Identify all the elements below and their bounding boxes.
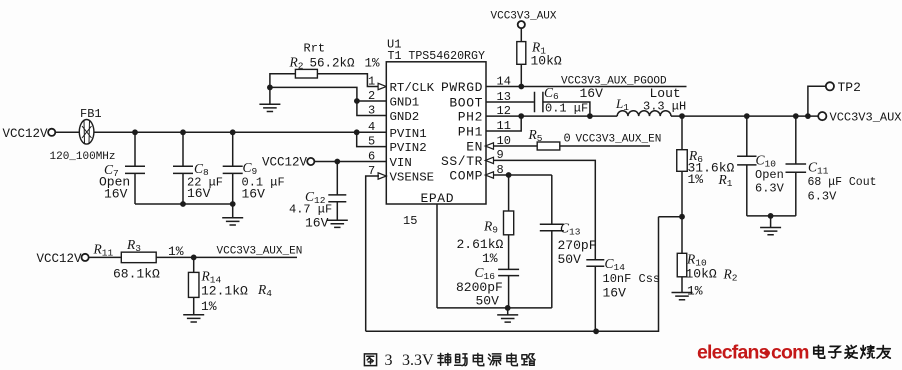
caption char 2: [473, 353, 483, 365]
wire C11 top lead: [795, 116, 797, 164]
terminal TP2: [826, 82, 834, 90]
node R2 gnd branch: [267, 85, 273, 91]
wire comp ground bus: [437, 307, 552, 309]
wire C9 bottom lead: [232, 173, 234, 204]
node rail C7 tap: [132, 129, 138, 135]
node PWRGD R1: [518, 84, 524, 90]
svg-text:VCC3V3_AUX_EN: VCC3V3_AUX_EN: [217, 246, 303, 258]
wire PH1 riser: [486, 116, 521, 131]
pin 7 input arrow: [378, 173, 386, 179]
wire R6 bottom lead: [681, 171, 683, 216]
wire EPAD lead: [436, 204, 438, 308]
wire L1 to output node: [671, 115, 819, 117]
svg-text:10kΩ: 10kΩ: [531, 54, 562, 69]
ground output caps: [760, 228, 781, 235]
node GND1 junction: [354, 98, 360, 104]
svg-text:TP2: TP2: [838, 80, 861, 95]
wire VCC12V to FB1: [55, 131, 79, 133]
wire C10 bottom lead: [746, 165, 748, 216]
wire VSENSE: [366, 176, 379, 331]
wire SSTR: [494, 160, 595, 259]
node divider mid: [679, 214, 685, 220]
wire R14 bottom lead: [193, 297, 195, 314]
svg-text:1%: 1%: [168, 244, 184, 259]
caption char 4: [507, 353, 517, 365]
wire R2 right to pin1: [317, 74, 379, 87]
wire COMP: [494, 174, 552, 176]
wire R1 bottom lead: [520, 64, 522, 86]
capacitor C13: [540, 224, 564, 231]
resistor R10: [677, 253, 687, 276]
svg-text:VCC12V: VCC12V: [37, 252, 83, 266]
caption char 5: [522, 354, 535, 365]
svg-text:VCC12V: VCC12V: [3, 127, 49, 141]
logo char 1: [829, 346, 841, 357]
svg-text:0.1 μF: 0.1 μF: [545, 102, 588, 116]
wire GND1 stub: [357, 100, 386, 102]
svg-text:Open: Open: [755, 168, 784, 182]
svg-text:50V: 50V: [558, 252, 582, 267]
ferrite bead FB1: [79, 120, 94, 145]
svg-text:56.2kΩ: 56.2kΩ: [310, 57, 356, 71]
wire C7 bottom lead: [134, 173, 136, 204]
svg-text:VCC12V: VCC12V: [262, 156, 308, 170]
svg-text:GND1: GND1: [390, 96, 420, 110]
logo char 0: [814, 345, 825, 358]
wire TP2 riser: [808, 86, 826, 116]
ground cap bank: [222, 218, 243, 225]
terminal VCC3V3_AUX top: [518, 21, 525, 28]
svg-text:3: 3: [385, 352, 393, 369]
svg-text:BOOT: BOOT: [449, 96, 483, 111]
svg-text:3: 3: [368, 103, 375, 117]
capacitor C12: [328, 195, 346, 202]
wire R2 left to ground: [270, 74, 296, 105]
wire feedback to divider: [659, 216, 683, 218]
svg-text:1%: 1%: [687, 284, 703, 299]
svg-text:VIN: VIN: [390, 156, 412, 170]
resistor R5: [537, 142, 560, 150]
node C14 bottom: [593, 328, 599, 334]
wire gnd stem outcaps: [770, 216, 772, 228]
svg-text:15: 15: [403, 214, 417, 228]
svg-text:16V: 16V: [104, 187, 128, 202]
capacitor C7: [125, 166, 145, 173]
wire cap bank ground bus: [135, 203, 233, 205]
svg-text:6.3V: 6.3V: [808, 190, 838, 204]
resistor R2: [295, 69, 317, 78]
svg-text:COMP: COMP: [449, 169, 483, 184]
svg-text:EN: EN: [466, 140, 483, 155]
svg-text:C11: C11: [808, 160, 829, 177]
logo char 4: [877, 345, 890, 358]
wire C8 top lead: [182, 132, 184, 166]
node bus C8: [180, 201, 186, 207]
svg-text:16V: 16V: [187, 186, 211, 201]
svg-text:10kΩ: 10kΩ: [686, 267, 717, 282]
wire EN right: [560, 145, 650, 147]
svg-text:1%: 1%: [688, 172, 704, 187]
wire bus to ground: [232, 204, 234, 218]
terminal VCC3V3_AUX out: [818, 112, 826, 120]
pin 10 input arrow: [485, 143, 493, 149]
svg-text:L1: L1: [615, 96, 629, 113]
node comp gnd: [505, 305, 511, 311]
op-amp U1 TPS54620RGY box: [386, 62, 486, 204]
inductor L1 Lout: [617, 111, 671, 116]
svg-text:2.61kΩ: 2.61kΩ: [457, 237, 504, 252]
wire C10 top lead: [746, 116, 748, 156]
wire R9 to C16: [508, 235, 510, 270]
pin 1 input arrow: [378, 83, 386, 89]
wire R3 right: [156, 256, 297, 258]
svg-text:C6: C6: [544, 85, 559, 102]
wire R10 top lead: [681, 217, 683, 254]
ground C12: [327, 220, 348, 227]
svg-text:1%: 1%: [365, 57, 381, 71]
svg-text:elecfans: elecfans: [697, 342, 770, 364]
wire C6 to PH: [543, 102, 590, 116]
svg-text:VCC3V3_AUX: VCC3V3_AUX: [491, 11, 557, 23]
wire gnd branch to GND pins: [270, 87, 386, 115]
svg-text:5: 5: [368, 134, 375, 148]
capacitor C9: [223, 166, 243, 173]
wire C14 bottom lead: [594, 266, 596, 331]
svg-text:0: 0: [564, 132, 571, 146]
node C12 tap: [334, 159, 340, 165]
svg-text:50V: 50V: [476, 294, 500, 309]
ground R2: [259, 104, 280, 111]
wire VIN: [315, 161, 387, 163]
wire C11 bottom lead: [795, 172, 797, 216]
caption char 0: [438, 353, 451, 365]
caption char 3: [488, 354, 501, 366]
svg-text:16V: 16V: [305, 216, 329, 231]
node rail C9 tap: [230, 129, 236, 135]
svg-text:R3: R3: [126, 237, 141, 254]
svg-text:1: 1: [368, 74, 375, 88]
node out R6: [679, 113, 685, 119]
node PH join: [518, 113, 524, 119]
ground R10: [672, 293, 693, 300]
svg-text:FB1: FB1: [80, 107, 102, 121]
svg-text:68 μF Cout: 68 μF Cout: [808, 176, 877, 189]
resistor R3: [121, 252, 156, 263]
svg-text:68.1kΩ: 68.1kΩ: [113, 267, 160, 282]
logo char 2: [845, 345, 857, 358]
wire C12 bottom lead: [336, 202, 338, 220]
capacitor C10: [737, 156, 756, 165]
svg-text:PH1: PH1: [458, 125, 483, 140]
wire C16 bottom lead: [508, 276, 510, 308]
node EN divider: [191, 255, 197, 261]
svg-text:R5: R5: [528, 127, 543, 144]
node bus C9: [230, 201, 236, 207]
ground compensation: [497, 315, 518, 322]
svg-text:16V: 16V: [580, 86, 604, 101]
svg-text:EPAD: EPAD: [421, 191, 455, 206]
capacitor C16: [498, 269, 519, 275]
svg-text:R9: R9: [483, 219, 498, 236]
caption char tu: [364, 354, 376, 366]
wire C13 top lead: [551, 175, 553, 224]
svg-text:3.3 μH: 3.3 μH: [643, 100, 686, 114]
logo char 3: [861, 345, 875, 358]
node rail C8 tap: [180, 129, 186, 135]
terminal VCC12V EN: [82, 254, 89, 261]
svg-text:16V: 16V: [242, 187, 266, 202]
svg-text:T1 TPS54620RGY: T1 TPS54620RGY: [388, 50, 485, 63]
capacitor C8: [173, 166, 193, 173]
svg-text:C10: C10: [756, 153, 777, 170]
svg-text:C13: C13: [560, 221, 581, 238]
svg-text:R2: R2: [723, 267, 738, 284]
node rail PVIN riser: [354, 129, 360, 135]
resistor R9: [504, 211, 514, 235]
svg-text:Rrt: Rrt: [304, 42, 326, 56]
svg-text:4: 4: [368, 120, 375, 134]
svg-text:com: com: [771, 342, 809, 364]
wire R3 left lead: [89, 256, 122, 258]
svg-text:C9: C9: [243, 160, 258, 177]
svg-text:2: 2: [368, 89, 375, 103]
svg-text:R4: R4: [257, 282, 272, 299]
pin 8 input arrow: [485, 172, 493, 178]
wire R10 bottom lead: [681, 277, 683, 293]
capacitor C6: [535, 92, 543, 112]
svg-text:VCC3V3_AUX: VCC3V3_AUX: [830, 111, 902, 125]
svg-text:VSENSE: VSENSE: [390, 171, 435, 185]
svg-text:PH2: PH2: [458, 110, 483, 125]
caption char 1: [455, 354, 467, 366]
svg-text:RT/CLK: RT/CLK: [390, 81, 435, 95]
wire C7 top lead: [134, 132, 136, 166]
node C6 right: [587, 113, 593, 119]
svg-text:6: 6: [368, 149, 375, 163]
node out cap gnd: [768, 213, 774, 219]
wire PH2: [486, 115, 617, 117]
svg-text:4.7 μF: 4.7 μF: [289, 203, 332, 217]
svg-text:1%: 1%: [201, 299, 217, 314]
terminal VCC12V VIN: [307, 158, 314, 165]
wire gnd stem comp: [507, 308, 509, 315]
svg-text:GND2: GND2: [390, 110, 420, 124]
pin 9 input arrow: [485, 157, 493, 163]
svg-text:12.1kΩ: 12.1kΩ: [201, 284, 248, 299]
resistor R6: [677, 150, 688, 172]
node COMP: [506, 172, 512, 178]
wire C13 bottom lead: [551, 231, 553, 308]
capacitor C14: [586, 260, 604, 267]
wire C9 top lead: [232, 132, 234, 166]
ground R14: [183, 315, 204, 322]
svg-text:R11: R11: [93, 242, 114, 259]
wire BOOT: [486, 101, 534, 103]
wire C12 top lead: [336, 162, 338, 195]
wire EN left: [494, 145, 537, 147]
resistor R1: [517, 42, 526, 65]
svg-text:C14: C14: [605, 256, 626, 273]
logo dot: [764, 350, 770, 356]
wire R9 top lead: [508, 175, 510, 211]
svg-text:6.3V: 6.3V: [755, 182, 785, 196]
svg-text:VCC3V3_AUX_EN: VCC3V3_AUX_EN: [576, 134, 662, 146]
svg-text:1%: 1%: [482, 251, 498, 266]
wire R14 top lead: [193, 257, 195, 272]
svg-text:16V: 16V: [603, 286, 627, 301]
wire R6 top lead: [681, 116, 683, 150]
svg-text:SS/TR: SS/TR: [441, 154, 483, 169]
wire PWRGD: [486, 86, 687, 88]
wire feedback bottom rail: [366, 217, 659, 332]
terminal VCC12V input: [48, 129, 55, 136]
svg-text:PVIN2: PVIN2: [390, 141, 427, 155]
svg-text:PWRGD: PWRGD: [441, 80, 483, 95]
svg-text:3.3V: 3.3V: [402, 352, 434, 369]
wire R1 top lead: [520, 28, 522, 41]
node out C10: [744, 113, 750, 119]
wire output cap bus: [747, 215, 796, 217]
svg-text:10nF Css: 10nF Css: [603, 272, 661, 286]
wire C8 bottom lead: [182, 173, 184, 204]
wire rail FB1 to PVIN1: [94, 131, 386, 133]
wire PVIN2 riser: [357, 132, 387, 146]
svg-text:PVIN1: PVIN1: [390, 127, 427, 141]
node out TP2: [805, 113, 811, 119]
node out C11: [793, 113, 799, 119]
svg-text:270pF: 270pF: [558, 238, 597, 253]
resistor R14: [188, 272, 199, 297]
capacitor C11: [786, 164, 807, 172]
